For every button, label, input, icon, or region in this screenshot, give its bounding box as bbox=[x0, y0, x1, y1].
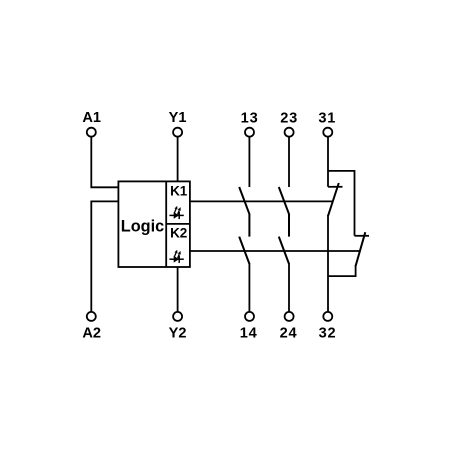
wire K2 actuation line bbox=[190, 250, 360, 252]
LED of K1 bbox=[169, 206, 183, 219]
terminal Y2 bbox=[173, 312, 182, 321]
label A2 bbox=[82, 325, 101, 341]
contact K1 13-14 NO bbox=[239, 187, 249, 237]
terminal 13 bbox=[245, 128, 254, 137]
svg-text:K2: K2 bbox=[170, 226, 187, 241]
wire to terminal 24 bbox=[288, 263, 290, 312]
contact K1 23-24 NO bbox=[279, 187, 289, 237]
svg-text:23: 23 bbox=[280, 111, 298, 127]
label 14 bbox=[240, 326, 258, 342]
relay K2 label bbox=[170, 226, 187, 241]
wire terminal 23 down bbox=[288, 137, 290, 187]
relay K1 label bbox=[170, 183, 188, 198]
terminal A2 bbox=[87, 312, 96, 321]
terminal 14 bbox=[245, 312, 254, 321]
wire NC1 arm down to terminal 32 bbox=[327, 215, 329, 312]
contact K2 13-14 NO bbox=[239, 237, 249, 264]
svg-text:Y1: Y1 bbox=[169, 110, 187, 126]
LED of K2 bbox=[169, 250, 183, 263]
svg-text:A1: A1 bbox=[82, 110, 101, 126]
svg-text:13: 13 bbox=[241, 111, 259, 127]
contact K2 31-32 NC arm bbox=[356, 232, 366, 266]
terminal Y1 bbox=[173, 128, 182, 137]
contact K2 23-24 NO bbox=[279, 237, 289, 264]
wire 31 step to NC2 branch bbox=[328, 171, 355, 236]
contact K1 31-32 NC seat bbox=[328, 186, 343, 188]
label 32 bbox=[319, 326, 337, 342]
terminal 31 bbox=[323, 128, 332, 137]
svg-text:A2: A2 bbox=[82, 325, 101, 341]
wire NC2 arm to 32 junction bbox=[328, 265, 356, 276]
wire Y2 from logic box bbox=[177, 267, 179, 312]
wire Y1 to logic box bbox=[177, 137, 179, 182]
logic box U1 bbox=[118, 181, 189, 267]
wire K1 actuation line bbox=[190, 200, 333, 202]
label Y2 bbox=[169, 325, 187, 341]
terminal 32 bbox=[323, 312, 332, 321]
svg-text:32: 32 bbox=[319, 326, 337, 342]
label 24 bbox=[280, 326, 298, 342]
label 31 bbox=[318, 111, 336, 127]
label 13 bbox=[241, 111, 259, 127]
wire A2 to logic box bbox=[91, 201, 118, 312]
K1/K2 cell divider bbox=[166, 223, 190, 225]
wire to terminal 14 bbox=[248, 263, 250, 312]
wire terminal 31 down bbox=[327, 137, 329, 187]
wire A1 to logic box bbox=[91, 137, 118, 188]
label Y1 bbox=[169, 110, 187, 126]
svg-text:Logic: Logic bbox=[121, 217, 164, 235]
terminal A1 bbox=[87, 128, 96, 137]
terminal 24 bbox=[285, 312, 294, 321]
svg-text:K1: K1 bbox=[170, 183, 188, 198]
contact K2 31-32 NC seat bbox=[355, 235, 370, 237]
svg-text:24: 24 bbox=[280, 326, 298, 342]
svg-text:31: 31 bbox=[318, 111, 336, 127]
label 23 bbox=[280, 111, 298, 127]
svg-text:Y2: Y2 bbox=[169, 325, 187, 341]
terminal 23 bbox=[285, 128, 294, 137]
label A1 bbox=[82, 110, 101, 126]
contact K1 31-32 NC arm bbox=[328, 183, 339, 216]
logic box divider bbox=[165, 181, 167, 267]
label Logic bbox=[121, 217, 164, 235]
wire terminal 13 down bbox=[248, 137, 250, 187]
svg-text:14: 14 bbox=[240, 326, 258, 342]
